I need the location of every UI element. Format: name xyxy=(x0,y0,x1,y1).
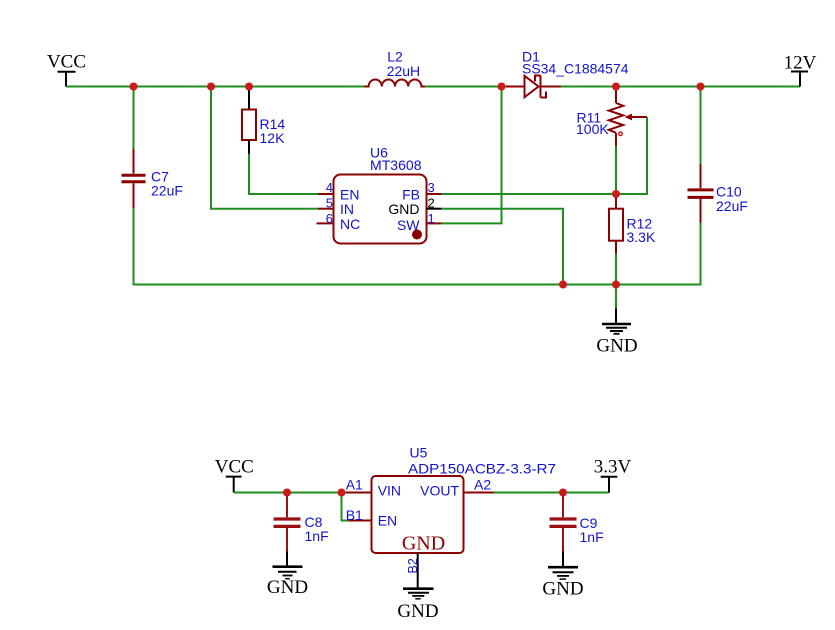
svg-text:22uF: 22uF xyxy=(151,183,183,199)
wire rail from D1 cathode to 12V xyxy=(561,86,800,88)
svg-text:NC: NC xyxy=(340,216,360,232)
svg-text:6: 6 xyxy=(326,211,333,226)
ground symbol under C8 xyxy=(267,552,308,599)
wire SW pin up to L2/D1 node xyxy=(442,87,502,224)
pin 5 IN xyxy=(318,208,334,210)
svg-text:VOUT: VOUT xyxy=(420,483,459,499)
svg-text:MT3608: MT3608 xyxy=(370,157,422,173)
wire C7 bottom xyxy=(133,208,135,286)
wire VOUT to 3.3V xyxy=(494,492,610,494)
pin 6 NC xyxy=(317,222,334,224)
svg-text:GND: GND xyxy=(397,601,438,622)
wire VCC rail left segment xyxy=(66,86,365,88)
ground symbol under U5 xyxy=(397,589,438,622)
wire B1 branch xyxy=(342,493,349,521)
pin A1 VIN xyxy=(346,492,372,494)
svg-text:22uH: 22uH xyxy=(387,63,420,79)
inductor L2 xyxy=(364,49,425,87)
junction node VCC/C8 xyxy=(283,489,291,497)
wire FB to feedback node xyxy=(442,193,648,195)
svg-text:A1: A1 xyxy=(346,477,363,493)
junction node VIN/EN branch xyxy=(338,489,346,497)
junction node VCC/C7 xyxy=(130,83,138,91)
wire C10 top xyxy=(700,87,702,165)
capacitor C8 xyxy=(274,494,329,552)
svg-text:22uF: 22uF xyxy=(716,198,748,214)
svg-text:ADP150ACBZ-3.3-R7: ADP150ACBZ-3.3-R7 xyxy=(408,461,556,477)
svg-text:GND: GND xyxy=(267,577,308,598)
pin 4 EN xyxy=(318,193,334,195)
resistor R14 xyxy=(242,87,285,155)
pin A2 VOUT xyxy=(464,492,494,494)
wire rail between L2 and D1 xyxy=(425,86,507,88)
wire R11 bottom to node xyxy=(615,146,617,194)
svg-text:IN: IN xyxy=(340,201,354,217)
pin 1 SW xyxy=(427,222,442,224)
capacitor C7 xyxy=(122,87,183,286)
svg-text:VCC: VCC xyxy=(47,52,86,73)
junction node GND rail/R12 xyxy=(612,281,620,289)
power flag 12V xyxy=(784,53,817,87)
svg-text:3: 3 xyxy=(428,180,435,195)
svg-text:2: 2 xyxy=(428,196,435,211)
junction node VCC/R14 xyxy=(245,83,253,91)
power flag VCC (top) xyxy=(47,52,86,87)
svg-text:GND: GND xyxy=(388,201,419,217)
svg-text:1: 1 xyxy=(428,211,435,226)
junction node FB/R11/R12 xyxy=(612,190,620,198)
junction node 12V/C10 xyxy=(697,83,705,91)
junction node SW/L2/D1 xyxy=(498,83,506,91)
svg-text:12K: 12K xyxy=(260,130,286,146)
power flag VCC (lower) xyxy=(215,457,254,493)
svg-text:SS34_C1884574: SS34_C1884574 xyxy=(522,61,629,77)
wire R12 to ground rail xyxy=(615,254,617,286)
potentiometer R11 xyxy=(576,88,647,147)
diode D1 (Schottky) xyxy=(506,49,629,98)
svg-text:GND: GND xyxy=(596,336,637,357)
svg-text:1nF: 1nF xyxy=(580,529,604,545)
svg-text:B2: B2 xyxy=(406,558,420,573)
resistor R12 xyxy=(609,194,656,254)
svg-text:GND: GND xyxy=(542,579,583,600)
svg-text:EN: EN xyxy=(340,187,359,203)
ground symbol under C9 xyxy=(542,552,583,600)
svg-text:3.3K: 3.3K xyxy=(627,229,656,245)
wire R14 to EN pin xyxy=(249,154,318,194)
junction node 12V/R11 xyxy=(612,83,620,91)
svg-text:A2: A2 xyxy=(474,477,491,493)
svg-text:100K: 100K xyxy=(576,121,609,137)
power flag 3.3V xyxy=(594,457,632,493)
svg-text:5: 5 xyxy=(326,196,333,211)
pin 3 FB xyxy=(427,193,442,195)
svg-text:EN: EN xyxy=(378,513,397,529)
ground symbol (top circuit) xyxy=(596,285,637,357)
svg-text:1nF: 1nF xyxy=(305,528,329,544)
pin B1 EN xyxy=(349,520,372,522)
svg-text:GND: GND xyxy=(402,533,445,555)
capacitor C9 xyxy=(550,494,604,552)
svg-text:VCC: VCC xyxy=(215,457,254,478)
IC U6 MT3608 xyxy=(317,145,442,244)
wire C10 bottom xyxy=(700,223,702,286)
wire wiper loop xyxy=(616,117,647,194)
svg-text:12V: 12V xyxy=(784,53,817,74)
pin 2 GND xyxy=(427,208,442,210)
svg-text:3.3V: 3.3V xyxy=(594,457,632,478)
IC U5 ADP150 xyxy=(346,445,557,588)
wire C7 top xyxy=(133,87,135,150)
wire VCC to VIN xyxy=(234,492,346,494)
wire VCC to IN pin xyxy=(211,87,318,209)
junction node VCC/IN xyxy=(207,83,215,91)
wiper arrow xyxy=(625,114,633,121)
svg-text:VIN: VIN xyxy=(378,483,401,499)
wire GND pin to ground rail xyxy=(442,209,564,286)
pin 1 marker dot xyxy=(412,230,422,240)
junction node GND rail/U6 GND xyxy=(559,281,567,289)
capacitor C10 xyxy=(688,87,748,286)
svg-text:B1: B1 xyxy=(346,507,363,523)
svg-text:U5: U5 xyxy=(410,445,428,461)
junction node 3.3V/C9 xyxy=(559,489,567,497)
wire ground rail xyxy=(134,284,701,286)
svg-text:4: 4 xyxy=(326,180,333,195)
